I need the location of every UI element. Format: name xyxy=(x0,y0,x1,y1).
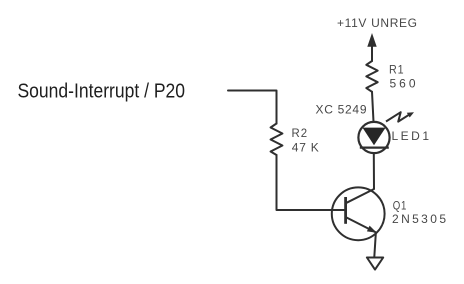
resistor R1 xyxy=(366,61,377,92)
transistor Q1 emitter stroke xyxy=(347,218,377,233)
wire: R2 bottom to transistor Q1 base xyxy=(277,155,345,210)
ground symbol xyxy=(367,258,383,270)
svg-text:47 K: 47 K xyxy=(292,141,320,155)
transistor Q1 base bar xyxy=(344,197,347,224)
wire: Q1 emitter to ground xyxy=(374,234,376,258)
svg-text:2N5305: 2N5305 xyxy=(392,212,447,226)
LED1 cathode bar xyxy=(360,147,389,149)
transistor Q1 emitter arrowhead xyxy=(367,226,377,233)
transistor Q1 collector stroke xyxy=(347,189,375,203)
power symbol +11V UNREG arrow xyxy=(371,44,373,61)
resistor R2 xyxy=(271,124,283,156)
LED1 light emission arrowhead xyxy=(407,112,414,117)
svg-text:LED1: LED1 xyxy=(392,129,431,143)
power arrowhead for +11V UNREG xyxy=(367,33,376,47)
transistor Q1 body circle xyxy=(332,187,385,240)
svg-text:XC 5249: XC 5249 xyxy=(316,103,368,117)
wire: input net from Sound-Interrupt / P20 to top of R2 xyxy=(228,91,277,124)
svg-text:Q1: Q1 xyxy=(393,199,408,213)
svg-text:R1: R1 xyxy=(389,63,405,77)
svg-text:R2: R2 xyxy=(292,126,309,140)
LED1 diode triangle (anode) xyxy=(363,128,386,146)
LED1 body circle xyxy=(358,122,389,153)
svg-text:560: 560 xyxy=(390,77,417,91)
wire: LED1 cathode to Q1 collector xyxy=(373,153,375,189)
svg-text:Sound-Interrupt / P20: Sound-Interrupt / P20 xyxy=(18,80,186,103)
wire: R1 bottom to LED1 anode xyxy=(372,92,374,122)
LED1 light emission arrow xyxy=(386,112,411,121)
svg-text:+11V UNREG: +11V UNREG xyxy=(337,16,418,30)
